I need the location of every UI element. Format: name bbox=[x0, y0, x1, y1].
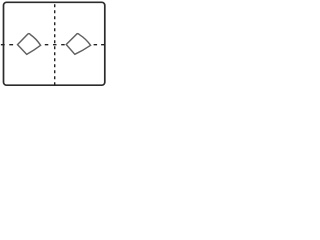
wire (vertical dashed) bbox=[54, 4, 56, 85]
dependent source symbol 2 (diamond) bbox=[66, 34, 90, 55]
wire (horizontal dashed, left segment) bbox=[1, 44, 18, 46]
wire (horizontal dashed, middle segment) bbox=[45, 44, 66, 46]
frame bbox=[4, 2, 105, 85]
wire (horizontal dashed, right segment) bbox=[94, 44, 105, 46]
dependent source symbol 1 (diamond) bbox=[18, 34, 41, 55]
